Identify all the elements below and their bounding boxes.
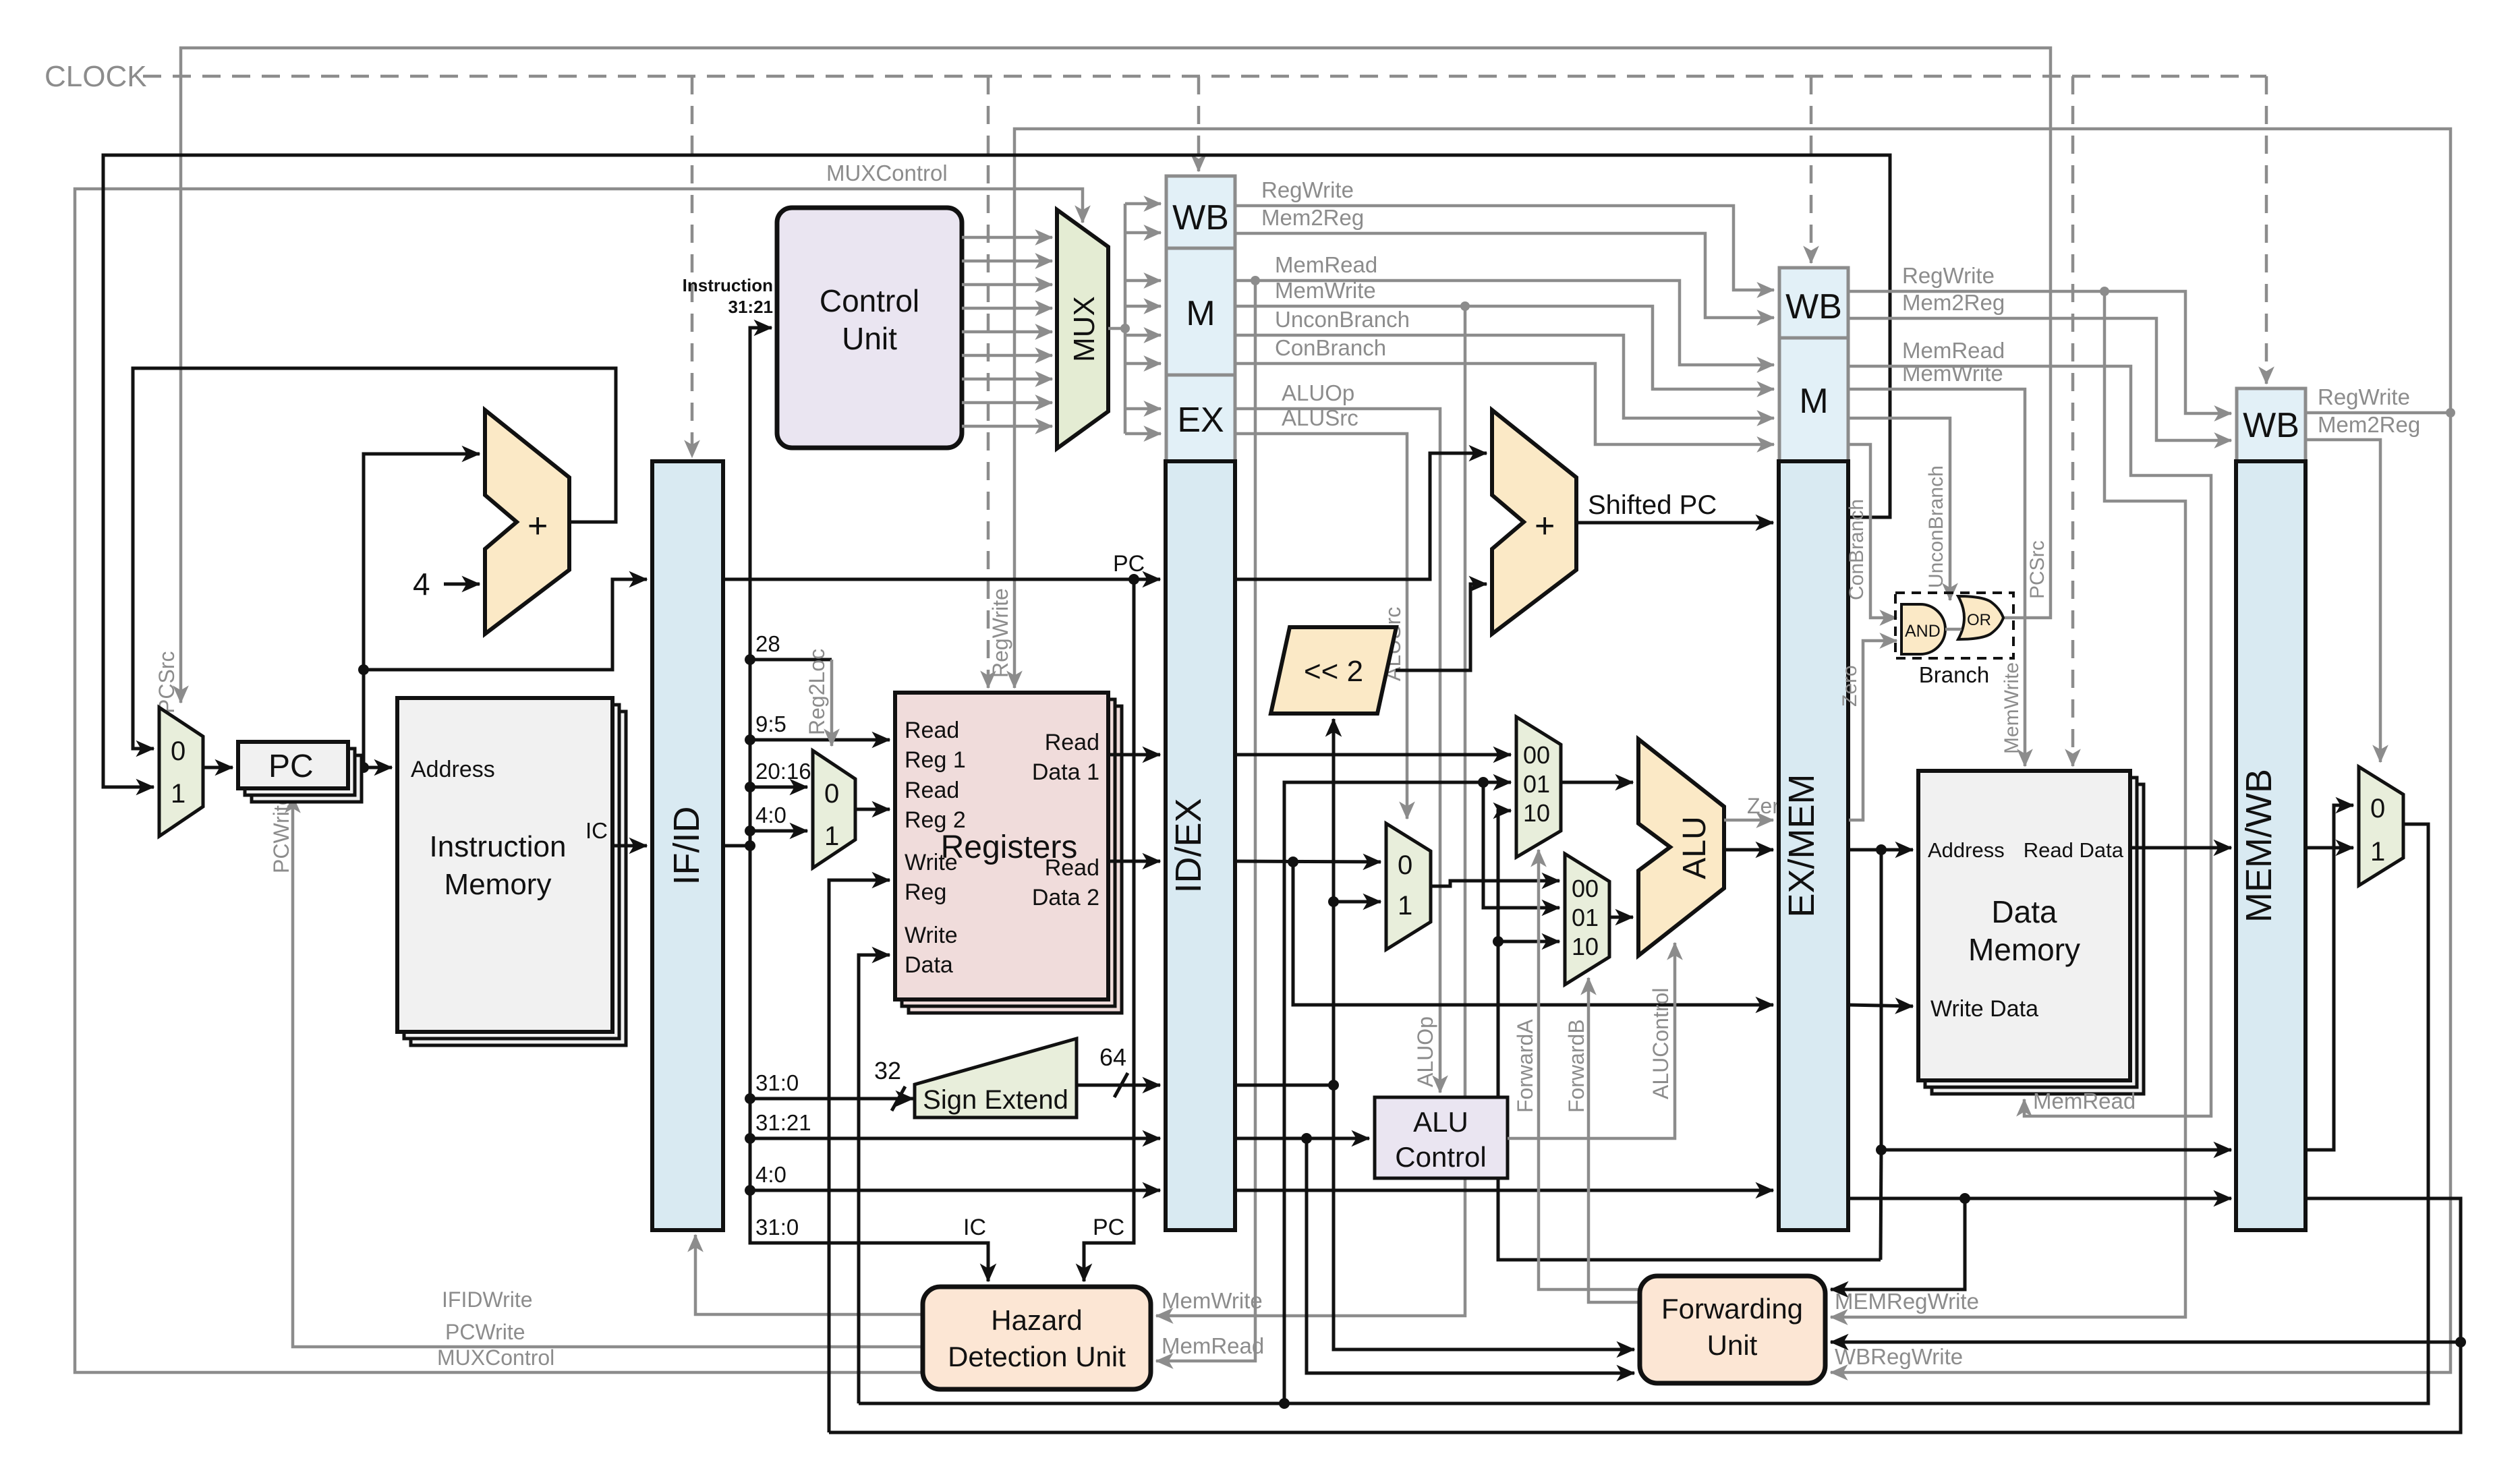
alu main ALU xyxy=(1638,739,1724,956)
wire instruction spine xyxy=(723,328,772,846)
wire ALU result to EX/MEM xyxy=(1724,848,1773,852)
wire control out 6 xyxy=(962,354,1052,357)
wire RegWrite EX/MEM to MEM/WB xyxy=(1849,291,2231,413)
wire slash 64 xyxy=(1114,1073,1128,1097)
wire ConBranch ID/EX to EX/MEM xyxy=(1235,364,1774,444)
wire 31:21 to forwarding unit xyxy=(1307,1138,1634,1373)
wire alu result feedback to forward B 10 xyxy=(1498,940,1559,943)
svg-text:UnconBranch: UnconBranch xyxy=(1275,307,1410,332)
svg-text:Data 1: Data 1 xyxy=(1032,759,1099,785)
node junction 4:0 xyxy=(745,825,755,836)
adder branch target xyxy=(1492,410,1576,634)
wire alu result feedback junction xyxy=(1881,1150,1881,1260)
svg-text:31:21: 31:21 xyxy=(755,1110,811,1135)
svg-text:Instruction: Instruction xyxy=(430,830,567,863)
alu control unit xyxy=(1375,1097,1508,1178)
svg-text:MEM/WB: MEM/WB xyxy=(2239,769,2279,923)
svg-text:PCWrite: PCWrite xyxy=(445,1320,525,1344)
svg-text:MemWrite: MemWrite xyxy=(2001,662,2023,754)
svg-text:10: 10 xyxy=(1523,799,1550,827)
svg-text:1: 1 xyxy=(1398,891,1412,921)
svg-text:Hazard: Hazard xyxy=(991,1304,1082,1336)
svg-text:28: 28 xyxy=(755,631,780,656)
svg-text:31:0: 31:0 xyxy=(755,1215,799,1240)
node junction PC tap xyxy=(1128,574,1139,585)
svg-text:RegWrite: RegWrite xyxy=(2318,384,2410,409)
svg-text:00: 00 xyxy=(1572,875,1599,902)
svg-text:OR: OR xyxy=(1967,611,1991,629)
wire Rd register memwb to write reg xyxy=(829,1198,2461,1432)
wire instr 9:5 to Read Reg 1 xyxy=(750,738,890,742)
wire mux to M in1 xyxy=(1125,279,1161,283)
svg-text:31:0: 31:0 xyxy=(755,1070,799,1095)
svg-text:4:0: 4:0 xyxy=(755,1162,786,1187)
svg-text:IF/ID: IF/ID xyxy=(666,807,707,885)
wire control out 8 xyxy=(962,401,1052,405)
svg-text:Mem2Reg: Mem2Reg xyxy=(1902,290,2005,315)
mux forward B (00/01/10) xyxy=(1565,854,1609,985)
wire mux to EX in2 xyxy=(1125,432,1161,436)
svg-text:Shifted PC: Shifted PC xyxy=(1588,490,1717,520)
svg-text:ALUSrc: ALUSrc xyxy=(1282,405,1358,430)
svg-text:MemWrite: MemWrite xyxy=(1902,361,2003,386)
register MEM/WB WB section xyxy=(2237,388,2306,461)
shifter shift left 2 xyxy=(1271,627,1396,714)
svg-text:0: 0 xyxy=(171,736,185,766)
svg-text:PCSrc: PCSrc xyxy=(154,651,179,714)
branch logic dashed box xyxy=(1895,593,2013,658)
wire ForwardB signal xyxy=(1588,978,1640,1302)
svg-text:ConBranch: ConBranch xyxy=(1275,335,1386,360)
register file Registers xyxy=(895,693,1122,1013)
node junction wb data bottom xyxy=(1279,1398,1290,1409)
mux Reg2Loc (0/1) xyxy=(813,751,855,868)
svg-text:9:5: 9:5 xyxy=(755,712,786,736)
svg-text:00: 00 xyxy=(1523,741,1550,769)
node junction MEMRegWrite xyxy=(2100,287,2109,296)
register MEM/WB xyxy=(2236,461,2306,1230)
svg-text:WBRegWrite: WBRegWrite xyxy=(1835,1344,1963,1369)
svg-text:EX/MEM: EX/MEM xyxy=(1781,774,1822,917)
wire Write Reg input xyxy=(829,880,890,1432)
register EX/MEM M section xyxy=(1779,338,1848,461)
svg-text:01: 01 xyxy=(1572,904,1599,931)
wire Zero flag to EX/MEM xyxy=(1724,819,1773,822)
wire CLOCK drop to EX/MEM WB xyxy=(1810,76,1813,263)
svg-text:Data: Data xyxy=(905,952,953,978)
wire control out 4 xyxy=(962,307,1052,310)
svg-text:Sign Extend: Sign Extend xyxy=(923,1085,1068,1115)
svg-text:WB: WB xyxy=(1172,198,1229,237)
svg-text:WB: WB xyxy=(2243,406,2299,445)
wire PC ID/EX to shift adder xyxy=(1235,453,1487,579)
wire Shifted PC to EX/MEM xyxy=(1576,521,1773,525)
svg-text:ALU: ALU xyxy=(1677,816,1713,879)
wire Read Data 1 to forward mux A xyxy=(1235,753,1511,757)
svg-text:PC: PC xyxy=(1093,1215,1124,1240)
svg-text:Memory: Memory xyxy=(445,868,552,901)
svg-text:MUX: MUX xyxy=(1068,296,1101,362)
wire control out 5 xyxy=(962,330,1052,334)
svg-text:PC: PC xyxy=(268,749,314,784)
wire instr bit 28 to Reg2Loc xyxy=(750,658,832,662)
mux forward A (00/01/10) xyxy=(1516,717,1561,857)
svg-text:ALUOp: ALUOp xyxy=(1282,380,1354,405)
svg-text:32: 32 xyxy=(874,1057,901,1084)
svg-text:Write Data: Write Data xyxy=(1930,996,2038,1022)
svg-text:WB: WB xyxy=(1785,287,1842,326)
wire AND to OR xyxy=(1945,628,1961,631)
svg-text:ID/EX: ID/EX xyxy=(1168,798,1209,893)
svg-text:MemRead: MemRead xyxy=(1275,252,1377,277)
wire MEMRegWrite to forwarding unit xyxy=(1831,291,2185,1317)
svg-text:IFIDWrite: IFIDWrite xyxy=(442,1287,533,1312)
svg-text:Instruction: Instruction xyxy=(683,275,773,295)
wire Rd memwb to forwarding unit xyxy=(1831,1341,2461,1344)
memory Data Memory xyxy=(1918,771,2144,1094)
svg-text:RegWrite: RegWrite xyxy=(1261,177,1354,202)
svg-text:EX: EX xyxy=(1177,401,1224,440)
gate AND xyxy=(1901,604,1945,654)
wire PC+4 feedback (adder to PC mux input 0) xyxy=(133,368,616,749)
wire instr 4:0 low to ID/EX xyxy=(750,1189,1160,1192)
node junction 31:21 xyxy=(745,1133,755,1144)
wire immediate spine to forwarding unit xyxy=(1334,1085,1634,1349)
svg-text:4: 4 xyxy=(413,567,430,602)
svg-text:ConBranch: ConBranch xyxy=(1845,499,1868,600)
svg-text:PCWrite: PCWrite xyxy=(269,793,293,873)
forwarding unit xyxy=(1640,1276,1825,1383)
wire forward B out to ALU xyxy=(1609,916,1633,919)
node junction 9:5 xyxy=(745,734,755,745)
svg-text:Branch: Branch xyxy=(1919,662,1990,687)
node junction Rd exmem xyxy=(1959,1193,1970,1204)
node junction 28 xyxy=(745,654,755,665)
wire spine down xyxy=(750,846,988,1281)
wire control out 1 xyxy=(962,236,1052,239)
wire 4:0 ID/EX to EX/MEM xyxy=(1235,1189,1773,1192)
svg-text:Mem2Reg: Mem2Reg xyxy=(2318,412,2420,437)
wire writeback data xyxy=(859,824,2428,1403)
svg-text:Control: Control xyxy=(1395,1141,1486,1173)
svg-text:1: 1 xyxy=(824,821,839,851)
svg-text:0: 0 xyxy=(2370,794,2385,823)
node junction PC out xyxy=(358,762,369,773)
wire UnconBranch ID/EX to EX/MEM xyxy=(1235,335,1774,418)
svg-text:Data: Data xyxy=(1991,894,2057,929)
svg-text:IC: IC xyxy=(585,818,608,843)
svg-text:1: 1 xyxy=(2370,837,2385,867)
wire mux to WB in2 xyxy=(1125,231,1161,235)
wire control out 2 xyxy=(962,260,1052,263)
mux writeback (0/1) xyxy=(2359,767,2403,885)
svg-text:Unit: Unit xyxy=(1707,1329,1758,1361)
wire Read Data 2 to write data path xyxy=(1293,862,1773,1005)
wire MemWrite drop to HDU xyxy=(1156,306,1465,1316)
svg-text:Data 2: Data 2 xyxy=(1032,885,1099,910)
svg-text:Control: Control xyxy=(820,283,919,318)
wire CLOCK drop to MEM/WB WB xyxy=(2265,76,2268,384)
wire PC mux to PC xyxy=(203,766,233,769)
svg-text:10: 10 xyxy=(1572,933,1599,960)
wire ConBranch to AND gate xyxy=(1849,444,1897,618)
svg-text:MemRead: MemRead xyxy=(1902,338,2005,363)
wire CLOCK drop to ID/EX WB xyxy=(1197,76,1201,171)
node junction immediate mux xyxy=(1328,896,1339,907)
wire sign extend out of ID/EX xyxy=(1235,1084,1334,1087)
wire mux to WB in1 xyxy=(1125,202,1161,206)
register EX/MEM WB section xyxy=(1779,268,1848,338)
wire shifted immediate to adder xyxy=(1396,584,1487,670)
wire Read Data memwb to mux 1 xyxy=(2306,846,2353,850)
svg-text:Forwarding: Forwarding xyxy=(1661,1293,1803,1325)
node junction Rd to FU xyxy=(2455,1337,2466,1347)
svg-text:MemWrite: MemWrite xyxy=(1162,1288,1263,1313)
svg-text:IC: IC xyxy=(963,1215,986,1240)
register EX/MEM xyxy=(1779,461,1848,1230)
wire 31:21 ID/EX to ALU Control xyxy=(1235,1137,1369,1140)
node junction 4:0 low xyxy=(745,1185,755,1196)
wire RegWrite return (MEM/WB to Registers) xyxy=(1014,129,2451,688)
wire instr 4:0 to Reg2Loc mux 1 xyxy=(750,830,807,833)
svg-text:Reg: Reg xyxy=(905,879,946,905)
wire MemWrite EX/MEM to Data Memory xyxy=(1849,389,2025,766)
wire MemRead drop to HDU xyxy=(1156,281,1255,1361)
wire ALU result to Data Memory Address xyxy=(1848,848,1913,852)
svg-text:Read: Read xyxy=(1045,730,1099,755)
sign-extend unit xyxy=(915,1039,1077,1117)
svg-text:PC: PC xyxy=(1113,551,1145,577)
wire Sign Extend to ID/EX xyxy=(1077,1084,1160,1087)
svg-text:MemRead: MemRead xyxy=(1162,1333,1264,1358)
svg-text:MUXControl: MUXControl xyxy=(826,161,948,185)
wire 4 constant into adder xyxy=(444,583,480,586)
node junction 31:0 xyxy=(745,1093,755,1104)
wire forward A out to ALU xyxy=(1561,781,1633,784)
node junction immediate xyxy=(1328,1080,1339,1091)
mux ALUSrc (0/1) xyxy=(1386,823,1431,950)
svg-text:PCSrc: PCSrc xyxy=(2026,540,2049,599)
svg-text:ALUOp: ALUOp xyxy=(1413,1016,1437,1087)
svg-text:Read Data: Read Data xyxy=(2024,838,2124,862)
svg-text:UnconBranch: UnconBranch xyxy=(1925,465,1947,588)
wire mux to M in4 xyxy=(1125,362,1161,366)
node junction read data 2 xyxy=(1288,856,1298,867)
wire immediate to ALUSrc mux 1 xyxy=(1334,900,1381,904)
wire PC value to IF/ID xyxy=(364,579,647,670)
wire instr 31:0 to Sign Extend xyxy=(750,1097,913,1101)
mux PC source (0/1) xyxy=(159,707,203,836)
gate OR xyxy=(1958,596,2003,639)
svg-text:RegWrite: RegWrite xyxy=(988,588,1012,678)
svg-text:Read: Read xyxy=(905,778,959,803)
svg-text:Detection Unit: Detection Unit xyxy=(948,1341,1126,1372)
control unit xyxy=(777,208,962,448)
node junction spine main xyxy=(745,840,755,851)
wire ALUControl signal xyxy=(1508,943,1675,1138)
wire Mem2Reg EX/MEM to MEM/WB xyxy=(1849,318,2231,440)
wire ALU result memwb to mux 0 xyxy=(2306,805,2353,1150)
svg-text:ForwardA: ForwardA xyxy=(1513,1019,1537,1113)
wire CLOCK dashed spine xyxy=(143,75,2266,78)
adder PC+4 xyxy=(485,410,569,634)
register ID/EX M section xyxy=(1166,248,1235,375)
wire instr 20:16 to Reg2Loc mux 0 xyxy=(750,786,807,789)
svg-text:4:0: 4:0 xyxy=(755,803,786,827)
svg-text:Mem2Reg: Mem2Reg xyxy=(1261,205,1364,230)
svg-text:31:21: 31:21 xyxy=(728,297,774,317)
wire control out 9 xyxy=(962,425,1052,428)
wire Read Data 2 to ID/EX xyxy=(1108,860,1160,863)
wire CLOCK drop to Registers xyxy=(987,76,990,688)
svg-text:Unit: Unit xyxy=(842,321,897,356)
wire Rd to forwarding unit xyxy=(1831,1198,1965,1289)
svg-text:ForwardB: ForwardB xyxy=(1564,1019,1588,1113)
wire RegWrite ID/EX to EX/MEM xyxy=(1235,206,1774,290)
svg-text:Zero: Zero xyxy=(1839,665,1861,707)
node junction 20:16 xyxy=(745,782,755,792)
wire MemRead EX/MEM to Data Memory xyxy=(1849,366,2211,1116)
wire ALU result bypass to MEM/WB xyxy=(1881,850,2231,1150)
svg-text:Reg 1: Reg 1 xyxy=(905,747,966,773)
svg-text:M: M xyxy=(1186,294,1215,333)
svg-text:1: 1 xyxy=(171,779,185,809)
svg-text:Reg2Loc: Reg2Loc xyxy=(805,649,829,735)
svg-text:+: + xyxy=(1535,506,1555,546)
node junction MemWrite xyxy=(1460,301,1470,311)
memory Instruction Memory xyxy=(397,698,626,1045)
wire mux out spine xyxy=(1108,204,1125,328)
node junction wb data split xyxy=(1478,777,1489,788)
wire mux to EX in1 xyxy=(1125,407,1161,411)
wire Read Data 1 to ID/EX xyxy=(1108,753,1160,757)
svg-text:CLOCK: CLOCK xyxy=(45,60,147,93)
wire mux to M in3 xyxy=(1125,334,1161,337)
wire alu result feedback vertical xyxy=(1498,811,1881,1260)
wire PC value up-branch xyxy=(364,454,480,767)
node junction PC branch xyxy=(358,664,369,675)
wire Read Data to MEM/WB xyxy=(2130,846,2231,850)
svg-text:MUXControl: MUXControl xyxy=(437,1345,554,1370)
svg-text:M: M xyxy=(1799,382,1828,421)
svg-text:Address: Address xyxy=(411,757,495,782)
wire WBRegWrite to forwarding unit xyxy=(1831,413,2451,1372)
wire control out 3 xyxy=(962,283,1052,287)
wire UnconBranch to OR gate xyxy=(1849,418,1950,600)
node junction alu fb xyxy=(1493,936,1504,947)
wire Zero to AND gate xyxy=(1849,641,1897,820)
wire IFIDWrite (HDU to IF/ID) xyxy=(695,1235,923,1314)
node junction MemRead xyxy=(1251,276,1260,285)
svg-text:Address: Address xyxy=(1928,838,2005,862)
wire Shifted PC feedback (EX/MEM to PC mux input 1) xyxy=(103,155,1890,787)
wire PCSrc feedback (OR gate to PC mux) xyxy=(181,48,2051,703)
svg-text:ALU: ALU xyxy=(1413,1106,1468,1138)
hazard detection unit xyxy=(923,1287,1151,1389)
wire CLOCK drop to Data Memory xyxy=(2071,76,2075,766)
mux control MUX xyxy=(1057,210,1108,448)
wire PC to Instruction Memory Address xyxy=(348,766,392,769)
wire ForwardA signal xyxy=(1539,850,1640,1289)
wire Mem2Reg ID/EX to EX/MEM xyxy=(1235,233,1774,318)
svg-text:Registers: Registers xyxy=(941,830,1078,865)
register ID/EX WB section xyxy=(1166,176,1235,248)
svg-text:RegWrite: RegWrite xyxy=(1902,263,1995,288)
svg-text:MemRead: MemRead xyxy=(2033,1088,2136,1113)
svg-text:0: 0 xyxy=(824,779,839,809)
wire MemRead ID/EX to EX/MEM xyxy=(1235,281,1774,365)
svg-text:AND: AND xyxy=(1905,622,1941,641)
wire PC tap to hazard unit xyxy=(1084,579,1134,1281)
node junction 31:21 fwd xyxy=(1301,1133,1312,1144)
wire ALUSrc mux out to forward B xyxy=(1431,881,1559,886)
wire write data to Data Memory xyxy=(1848,1005,1913,1006)
wire CLOCK drop to IF/ID xyxy=(691,76,694,457)
node junction RegWrite memwb xyxy=(2446,408,2455,417)
svg-text:<< 2: << 2 xyxy=(1304,655,1363,688)
wire MUXControl (HDU to MUX) xyxy=(75,189,1083,1372)
wire Write Data input xyxy=(859,955,890,1403)
wire PCWrite (HDU to PC) xyxy=(293,796,923,1347)
node junction mux out xyxy=(1120,324,1130,333)
wire mux to M in2 xyxy=(1125,305,1161,308)
svg-text:0: 0 xyxy=(1398,850,1412,880)
wire slash 32 xyxy=(892,1086,905,1111)
svg-text:ALUControl: ALUControl xyxy=(1649,988,1673,1099)
wire ALUSrc to ALUSrc mux xyxy=(1235,434,1407,819)
node junction alu bypass xyxy=(1876,1144,1887,1155)
node junction address xyxy=(1876,844,1887,855)
register PC xyxy=(238,742,362,802)
svg-text:64: 64 xyxy=(1099,1043,1126,1071)
wire RegWrite memwb out xyxy=(2307,411,2451,415)
wire ALUOp to ALU Control xyxy=(1235,409,1440,1093)
wire Mem2Reg to writeback mux xyxy=(2307,440,2380,762)
svg-text:MEMRegWrite: MEMRegWrite xyxy=(1835,1289,1979,1314)
svg-text:Memory: Memory xyxy=(1968,932,2080,967)
wire Read Data 2 out of ID/EX xyxy=(1235,861,1381,862)
svg-text:+: + xyxy=(527,506,548,546)
wire wb data riser xyxy=(1284,782,1511,1403)
svg-text:Write: Write xyxy=(905,923,958,948)
svg-text:20:16: 20:16 xyxy=(755,759,811,784)
wire MemWrite ID/EX to EX/MEM xyxy=(1235,306,1774,389)
wire immediate to shift left 2 xyxy=(1332,719,1336,1085)
wire control out 7 xyxy=(962,378,1052,381)
wire Reg2Loc mux to Read Reg 2 xyxy=(855,808,890,811)
wire wb data to forward B 01 xyxy=(1483,782,1559,908)
wire PC through IF/ID to ID/EX xyxy=(723,578,1160,581)
register ID/EX EX section xyxy=(1166,375,1235,461)
wire Instruction Memory IC to IF/ID xyxy=(612,844,647,848)
svg-text:Read: Read xyxy=(905,718,959,743)
register IF/ID xyxy=(652,461,723,1230)
svg-text:01: 01 xyxy=(1523,770,1550,798)
wire Reg2Loc control xyxy=(830,660,834,746)
svg-text:MemWrite: MemWrite xyxy=(1275,278,1376,303)
register ID/EX xyxy=(1166,461,1235,1230)
wire instr 31:21 to ID/EX xyxy=(750,1137,1160,1140)
wire Rd register EX/MEM to MEM/WB xyxy=(1848,1197,2231,1200)
